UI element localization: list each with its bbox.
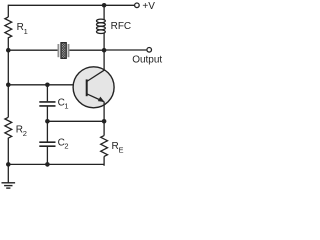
svg-text:RFC: RFC bbox=[111, 21, 132, 32]
svg-text:+V: +V bbox=[142, 1, 155, 12]
label RFC bbox=[111, 21, 132, 32]
capacitor C2 bbox=[39, 142, 55, 146]
wire RFC top lead bbox=[103, 5, 105, 19]
capacitor C1 bbox=[39, 102, 55, 106]
label RE bbox=[112, 141, 124, 154]
wire output line bbox=[104, 49, 146, 51]
label +V bbox=[142, 1, 155, 12]
label C2 bbox=[58, 138, 69, 151]
node emitter/mid junction dot bbox=[102, 119, 107, 124]
wire left rail between R2 and bottom rail bbox=[7, 140, 9, 164]
wire +V lead bbox=[133, 4, 135, 6]
transistor Q1 collector stroke bbox=[87, 70, 105, 81]
wire left rail between base node and R2 bbox=[7, 85, 9, 118]
node C1/C2 mid junction dot bbox=[45, 119, 50, 124]
wire base line bbox=[8, 84, 86, 86]
wire C1 top lead from base node bbox=[46, 85, 48, 102]
resistor RE bbox=[101, 136, 108, 157]
node base/C1 junction dot bbox=[45, 83, 50, 88]
svg-text:1: 1 bbox=[64, 101, 68, 110]
wire crystal line right segment to center node bbox=[69, 49, 104, 51]
wire between C1 and mid node bbox=[46, 107, 48, 122]
resistor R1 bbox=[5, 17, 12, 40]
node left-base junction dot bbox=[6, 83, 11, 88]
wire top rail from R1 top corner to +V terminal bbox=[8, 4, 134, 6]
label R2 bbox=[16, 124, 27, 138]
svg-text:2: 2 bbox=[23, 129, 27, 138]
node bottom-center junction dot bbox=[45, 162, 50, 167]
svg-text:E: E bbox=[119, 145, 124, 154]
wire bottom rail bbox=[8, 163, 104, 165]
transistor Q1 body circle bbox=[73, 67, 114, 108]
wire RE bottom lead to bottom rail corner bbox=[102, 156, 105, 165]
terminal Output open circle bbox=[147, 48, 152, 53]
transistor Q1 emitter stroke bbox=[87, 94, 104, 102]
wire C2 bottom lead to bottom rail bbox=[46, 147, 48, 165]
node RFC/crystal/output/collector 4-way junction dot bbox=[102, 48, 107, 53]
wire between emitter node and RE bbox=[103, 121, 105, 135]
wire left rail between crystal node and base node bbox=[7, 50, 9, 85]
node left-crystal junction dot bbox=[6, 48, 11, 53]
crystal Y1 body (hatched) bbox=[61, 43, 66, 59]
svg-text:1: 1 bbox=[24, 27, 28, 36]
transistor Q1 emitter arrowhead bbox=[98, 97, 105, 102]
node bottom-left junction dot bbox=[6, 162, 11, 167]
label Output bbox=[132, 55, 162, 66]
wire between mid node and C2 bbox=[46, 121, 48, 141]
crystal Y1 left plate bbox=[58, 44, 60, 57]
wire left rail between R1 and crystal node bbox=[7, 40, 9, 50]
wire ground stub bbox=[7, 164, 9, 182]
label R1 bbox=[17, 22, 28, 36]
transistor Q1 base bar bbox=[86, 79, 88, 96]
crystal Y1 right plate bbox=[68, 44, 70, 57]
wire collector lead (4-way node down into circle) bbox=[103, 50, 105, 71]
wire emitter lead down to mid node bbox=[103, 102, 105, 122]
node top rail junction dot bbox=[102, 3, 107, 8]
terminal +V open circle bbox=[135, 3, 140, 8]
svg-text:2: 2 bbox=[64, 142, 68, 151]
wire crystal line left segment bbox=[8, 49, 57, 51]
label C1 bbox=[58, 97, 69, 110]
ground symbol bbox=[2, 183, 16, 188]
wire left rail top (corner into R1) bbox=[7, 5, 9, 17]
wire RFC bottom lead to 4-way node bbox=[103, 33, 105, 50]
svg-text:Output: Output bbox=[132, 55, 162, 66]
inductor RFC coil loops bbox=[97, 19, 106, 33]
resistor R2 bbox=[5, 117, 12, 140]
wire mid line from C node to emitter node bbox=[47, 120, 104, 122]
